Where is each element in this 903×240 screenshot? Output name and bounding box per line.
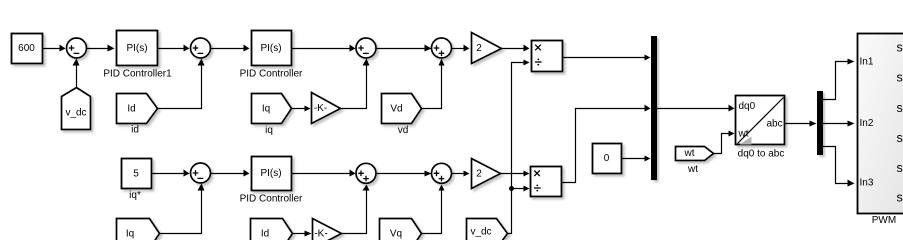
from tag Iq (bottom row)	[117, 219, 160, 240]
svg-text:0: 0	[604, 153, 610, 164]
svg-text:5: 5	[133, 169, 139, 180]
sum junction S6 (+ +)	[356, 163, 376, 183]
constant block 600 (v_dc reference)	[12, 34, 43, 64]
svg-text:PI(s): PI(s)	[260, 168, 281, 179]
svg-text:Id: Id	[261, 229, 269, 240]
sum junction S4 (+ +)	[432, 38, 452, 58]
svg-text:vd: vd	[398, 125, 409, 136]
svg-text:600: 600	[18, 43, 35, 54]
svg-text:-K-: -K-	[314, 229, 327, 240]
wire PID Controller to sum3	[291, 45, 356, 52]
demux M2 (bar)	[817, 91, 823, 155]
wire 0 to mux M1 input3	[621, 156, 651, 162]
wire Vd tag to sum4 plus	[422, 59, 445, 109]
wire riser branch to product P2 divide input	[512, 186, 530, 192]
wire wt tag to dq0 wt input	[714, 131, 735, 154]
svg-text:dq0 to abc: dq0 to abc	[738, 148, 785, 159]
wire Vq to sum7 plus	[422, 185, 445, 234]
from tag Id (bottom row)	[251, 219, 293, 240]
wire gain K2 to sum6 plus	[342, 185, 370, 234]
subsystem block PWM	[858, 34, 903, 214]
svg-text:PID Controller: PID Controller	[240, 194, 303, 205]
wire gain G2 to product P2	[501, 171, 530, 177]
from tag v_dc (upward)	[62, 88, 91, 130]
svg-text:id: id	[131, 125, 139, 136]
wire demux out1 to PWM In1	[823, 59, 855, 100]
svg-text:Id: Id	[127, 104, 135, 115]
from tag Vq	[380, 219, 422, 240]
wire Iq bottom to sum5 minus	[160, 184, 205, 234]
wire dq0 block to demux M2	[785, 121, 817, 127]
gain K2 (-K-)	[313, 219, 342, 240]
sum junction S7 (+ +)	[432, 163, 452, 183]
sum junction S2 (+ -)	[191, 38, 211, 58]
constant block 0	[593, 144, 622, 174]
wire sum5 to PID Controller row2	[211, 170, 250, 177]
svg-text:PI(s): PI(s)	[126, 43, 147, 54]
wire demux out2 to PWM In2	[823, 121, 855, 127]
svg-text:Vq: Vq	[390, 229, 402, 240]
gain G1 value 2	[472, 33, 502, 64]
sum junction S5 (+ -)	[191, 163, 211, 183]
product block P1 (x /)	[532, 41, 563, 72]
wire gain K1 to sum3 minus	[341, 59, 370, 109]
sum junction S3 (+ -)	[356, 38, 376, 58]
svg-text:Vd: Vd	[390, 104, 402, 115]
wire demux out3 to PWM In3	[823, 147, 855, 187]
wire sum1 to PID Controller1	[87, 45, 115, 52]
svg-text:Iq: Iq	[262, 104, 270, 115]
product block P2 (x /)	[531, 167, 562, 197]
from tag wt	[676, 147, 714, 161]
svg-text:PWM: PWM	[872, 215, 896, 226]
wire Iq tag to gain K1	[292, 106, 311, 112]
svg-text:s: s	[897, 71, 903, 85]
wire Id tag to sum2 minus	[158, 59, 205, 109]
wire sum3 to sum4	[376, 45, 432, 52]
svg-text:-K-: -K-	[314, 103, 327, 114]
svg-text:s: s	[897, 101, 903, 115]
svg-text:v_dc: v_dc	[470, 227, 491, 238]
junction node on v_dc riser	[509, 186, 514, 191]
wire sum7 to gain G2	[452, 171, 470, 177]
mux M1 (bar)	[651, 36, 657, 180]
svg-text:v_dc: v_dc	[65, 108, 86, 119]
svg-text:s: s	[897, 131, 903, 145]
PID block U2 PI(s)	[252, 31, 292, 66]
from tag Iq (row1)	[252, 94, 292, 124]
svg-text:s: s	[897, 191, 903, 205]
sum junction S1 (+ -)	[67, 38, 87, 58]
svg-text:PI(s): PI(s)	[260, 43, 281, 54]
svg-text:s: s	[897, 41, 903, 55]
svg-text:In2: In2	[860, 118, 874, 129]
svg-text:wt: wt	[738, 128, 749, 139]
PID block U3 PI(s)	[252, 157, 292, 191]
wire v_dc riser to product P1 divide input	[508, 60, 530, 234]
wire gain G1 to product P1	[502, 45, 530, 52]
wire product P1 to mux M1	[562, 55, 651, 61]
svg-text:PID Controller1: PID Controller1	[103, 69, 172, 80]
wire 600 to sum1	[42, 45, 66, 52]
from tag Id (row1)	[117, 94, 158, 124]
from tag Vd	[382, 94, 422, 124]
svg-text:wt: wt	[687, 164, 698, 175]
wire v_dc tag up to sum1 minus	[73, 59, 80, 88]
wire 5 to sum5	[151, 170, 190, 177]
svg-text:Iq: Iq	[126, 229, 134, 240]
svg-text:iq*: iq*	[129, 190, 141, 201]
wire sum2 to PID Controller	[211, 45, 250, 52]
from tag v_dc (bottom row)	[467, 219, 508, 240]
svg-text:abc: abc	[767, 119, 783, 130]
svg-text:iq: iq	[265, 125, 273, 136]
svg-text:2: 2	[476, 43, 482, 54]
wire PID Controller1 to sum2	[158, 45, 190, 52]
wire Id bottom to gain K2	[292, 231, 311, 237]
wire PID row2 to sum6	[291, 170, 356, 177]
wire product P2 to mux M1 input2	[562, 105, 651, 183]
constant block 5 (iq*)	[122, 159, 152, 189]
svg-text:PID Controller: PID Controller	[240, 69, 303, 80]
svg-text:In1: In1	[860, 57, 874, 68]
wire sum4 to gain G1	[452, 45, 470, 52]
gain G2 value 2	[472, 159, 501, 189]
wire mux M1 to dq0 block	[657, 105, 735, 112]
transform block dq0 to abc	[736, 96, 785, 145]
svg-text:dq0: dq0	[739, 101, 756, 112]
gain K1 (-K-)	[312, 93, 341, 124]
svg-text:In3: In3	[860, 178, 874, 189]
svg-text:s: s	[897, 161, 903, 175]
svg-text:wt: wt	[684, 148, 695, 159]
svg-text:2: 2	[476, 168, 482, 179]
wire sum6 to sum7	[376, 171, 432, 177]
PID block U1 PI(s)	[117, 31, 158, 66]
